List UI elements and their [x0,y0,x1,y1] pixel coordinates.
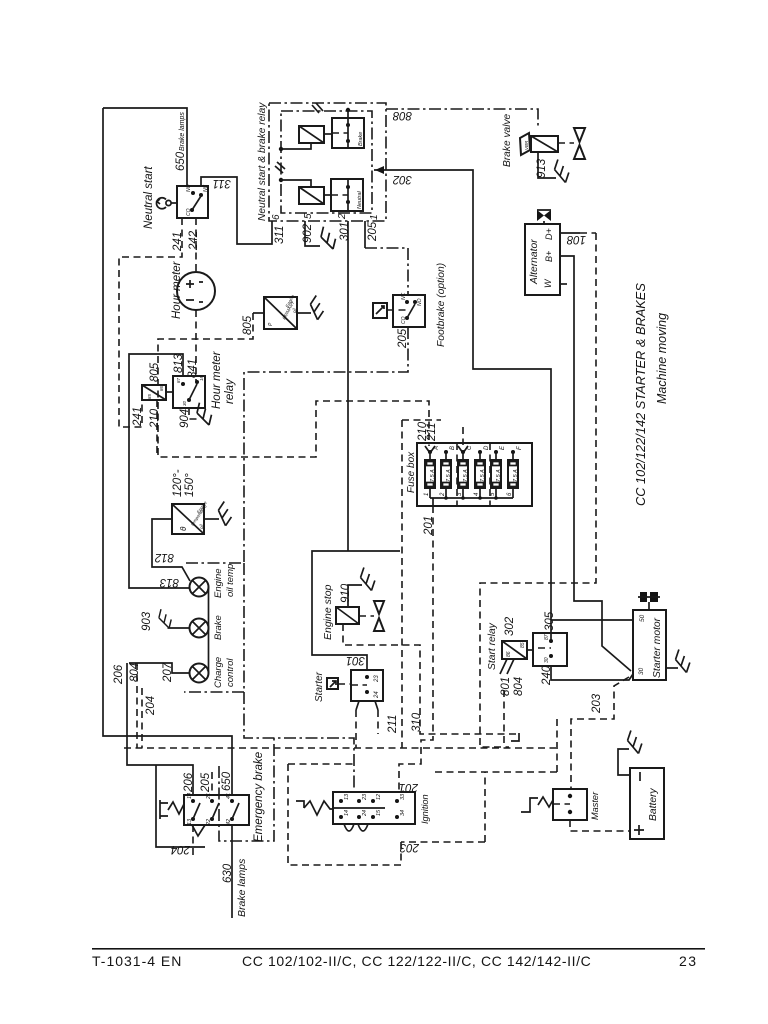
svg-text:7.5 A: 7.5 A [446,469,452,482]
svg-text:VBR: VBR [524,140,529,150]
alternator G1 [525,224,560,295]
neutral start switch S1 [177,186,208,218]
svg-text:18: 18 [199,375,204,381]
svg-text:2: 2 [440,492,446,497]
neutral relay coil [299,187,324,204]
fuse 1 [424,446,440,498]
svg-text:813: 813 [173,353,185,373]
valve actuator symbol [558,142,574,144]
svg-text:Engine: Engine [284,293,295,308]
svg-text:Footbrake (option): Footbrake (option) [436,263,447,347]
wire 804 dashed [136,663,138,748]
wire 205 from terminal 1 [364,221,366,248]
wire 311 switch to relay [201,177,272,244]
svg-text:oil temp: oil temp [225,564,236,597]
svg-text:650: 650 [221,771,233,791]
wire 305 relay to starter motor [551,619,633,621]
svg-text:808: 808 [392,109,412,121]
svg-text:205: 205 [367,221,379,242]
svg-text:NO: NO [417,298,423,306]
armature plate [520,133,530,155]
inner dash-dot box [281,111,372,213]
diode box 805 [264,297,297,329]
hour meter M1 [177,272,215,310]
svg-text:41: 41 [226,793,232,799]
svg-text:150°: 150° [184,473,196,497]
svg-text:C: C [467,445,473,450]
svg-text:P: P [268,322,274,326]
svg-text:204: 204 [171,843,191,855]
svg-text:310: 310 [411,712,423,732]
svg-text:Brake lamps: Brake lamps [179,112,186,151]
dash-dot trunk from footbrake [244,327,408,563]
svg-text:Neutral start & brake relay: Neutral start & brake relay [257,102,268,221]
svg-text:21: 21 [206,793,212,800]
brake relay coil [299,126,324,143]
key symbol starter [327,678,338,689]
svg-text:85: 85 [147,393,152,399]
wire 650 top rail [103,108,187,186]
svg-text:Brake: Brake [213,615,224,640]
svg-text:30: 30 [544,657,550,663]
svg-text:relay: relay [224,378,236,404]
wire 241 dashed [119,218,182,427]
svg-text:203: 203 [399,841,420,853]
svg-text:108: 108 [566,233,586,245]
svg-text:24: 24 [374,691,380,699]
wire 310 dashed [343,624,519,734]
dash-dot loop emergency brake [219,738,274,841]
svg-text:W: W [543,278,553,288]
lamps dash-dot box [184,563,244,692]
svg-text:Hour meter: Hour meter [171,260,183,319]
detent mark below [192,825,205,836]
svg-text:801: 801 [500,677,512,696]
svg-text:14: 14 [187,793,193,799]
fold marks [275,103,323,173]
svg-text:207: 207 [162,662,174,683]
svg-text:5: 5 [303,213,314,219]
ground 913 [551,159,572,182]
svg-text:D: D [484,445,490,450]
svg-text:Ignition: Ignition [420,794,430,824]
master switch [553,789,587,820]
svg-text:Fuse box: Fuse box [406,451,417,493]
wire 904 to ground [189,408,200,419]
svg-text:904: 904 [179,409,191,428]
svg-text:203: 203 [591,693,603,714]
svg-text:903: 903 [141,611,153,631]
svg-text:Emergency brake: Emergency brake [253,752,265,842]
battery [630,768,664,839]
svg-text:211: 211 [387,715,399,734]
svg-text:630: 630 [222,863,234,883]
svg-text:Engine stop: Engine stop [322,584,334,640]
svg-text:B: B [450,446,456,450]
svg-text:804: 804 [129,663,141,682]
svg-text:241: 241 [132,407,144,427]
svg-text:T-1031-4 EN: T-1031-4 EN [92,953,182,969]
wire 201 from fuse rail to ignition [432,498,434,506]
key symbol [171,202,177,204]
svg-text:NO: NO [186,184,192,192]
wire 206 [127,663,193,795]
wire 902 to ground [305,221,320,246]
svg-text:30: 30 [638,667,645,675]
outer dash-dot box [269,103,386,221]
svg-text:211: 211 [426,423,438,442]
footer rule [92,948,705,950]
svg-text:302: 302 [392,173,412,185]
wire 207 lamp3 [129,663,190,673]
wire 210 dashed from coil [156,400,158,457]
svg-text:85: 85 [520,642,526,648]
svg-text:120°-: 120°- [172,469,184,497]
svg-text:6: 6 [271,214,282,220]
svg-text:Battery: Battery [648,788,659,821]
emergency brake lever symbol [156,765,205,847]
svg-text:242: 242 [188,230,200,251]
svg-text:13: 13 [187,818,193,825]
ignition enclosure dashed [288,764,401,865]
fuse box enclosure dashed [402,420,441,748]
svg-text:86: 86 [159,385,164,391]
lamp brake [190,619,209,638]
svg-text:50: 50 [639,614,646,622]
start relay contact [533,633,567,666]
wire 650 left rail down to emergency brake [103,108,232,795]
fuse 2 [440,446,456,498]
ground thermal [216,502,234,526]
svg-text:Engine: Engine [213,568,224,598]
ignition switch [333,792,415,824]
svg-text:206: 206 [183,772,195,793]
battery minus wire to ground [618,749,630,775]
pedal symbol [373,303,387,318]
svg-text:34: 34 [400,810,406,816]
wires 801 804 from coil [500,659,514,674]
svg-text:5: 5 [490,492,496,496]
wire 203 dashed [401,677,629,842]
relay contact box [173,376,205,408]
svg-text:7.5 A: 7.5 A [430,469,436,482]
wire 812 [152,519,190,581]
fuse 6 [507,446,523,498]
ignition key lever [296,801,333,815]
dashed enclosure hour meter relay [158,313,429,457]
svg-text:Machine moving: Machine moving [655,313,669,404]
node top rail [347,109,349,118]
wire 204 below switch [192,825,194,856]
wire W stub [560,283,567,285]
wire 242/841 hour meter to relay [195,310,197,382]
svg-text:23: 23 [679,953,698,969]
svg-text:206: 206 [113,664,125,685]
svg-text:Brake lamps: Brake lamps [236,858,248,917]
svg-text:201: 201 [399,781,419,793]
thermal switch [172,504,204,534]
wire 211 arrow into fuse C [458,446,468,453]
svg-text:204: 204 [145,696,157,716]
wire to ground right [204,518,219,520]
svg-text:NC: NC [401,292,407,300]
start relay coil [502,641,527,659]
footbrake switch [393,295,425,327]
svg-text:Neutral start: Neutral start [143,166,155,229]
svg-text:Brake: Brake [358,132,364,146]
wire 913 to ground [538,152,556,178]
fuse 4 [474,445,490,498]
svg-text:D+: D+ [544,228,554,240]
wire 240 relay to starter motor [551,666,633,680]
svg-text:650: 650 [175,151,187,171]
svg-text:210: 210 [149,408,161,429]
svg-text:Master: Master [590,791,600,820]
svg-text:7.5 A: 7.5 A [496,469,502,482]
ground 902 [317,227,339,249]
wires below starter switch [356,701,378,710]
ground starter motor [666,667,678,669]
svg-text:CO: CO [186,208,192,216]
svg-text:7.5 A: 7.5 A [513,469,519,482]
valve symbol [359,615,374,617]
brake valve solenoid 913 [531,136,558,152]
svg-text:7.5 A: 7.5 A [463,469,469,482]
svg-text:301: 301 [346,654,365,666]
svg-text:23: 23 [362,793,368,801]
svg-text:311: 311 [213,177,231,189]
svg-text:813: 813 [159,576,179,588]
svg-text:812: 812 [154,551,174,563]
wire 302 from relay to start relay [374,170,551,641]
svg-text:θ: θ [179,526,188,531]
svg-text:E: E [500,445,506,450]
svg-text:24: 24 [362,810,368,817]
fuse bottom rail [430,497,513,499]
svg-text:3: 3 [457,492,463,496]
svg-text:910: 910 [340,583,352,603]
relay coil 805 [142,385,166,400]
ground for 805 box [308,296,326,320]
wire 242 dashed [195,218,197,272]
svg-text:15: 15 [376,809,382,816]
wire 808 dash-dot to brake valve [386,109,538,128]
wire 205 dashed into switch [211,772,213,795]
svg-text:201: 201 [423,516,435,536]
svg-text:Hour meter: Hour meter [211,350,223,409]
starter switch 301 [351,670,383,701]
master lever symbol [521,798,538,812]
svg-text:42: 42 [226,819,232,825]
svg-text:913: 913 [536,158,548,178]
svg-text:805: 805 [242,315,254,335]
svg-text:CC 102/122/142 STARTER & BRAKE: CC 102/122/142 STARTER & BRAKES [633,283,648,506]
svg-text:Brake valve: Brake valve [502,113,513,167]
neutral relay contact [331,179,363,211]
svg-text:305: 305 [544,611,556,631]
svg-text:23: 23 [374,675,380,683]
wire 301 long vertical [347,221,349,551]
wire master to battery plus [570,820,630,831]
ground 904 [193,403,215,425]
svg-text:NC: NC [203,184,209,192]
svg-text:6: 6 [507,492,513,496]
starter motor M2 [633,610,666,680]
svg-text:4: 4 [474,492,480,496]
svg-text:30: 30 [182,400,187,406]
svg-text:22: 22 [206,819,212,826]
svg-text:Start relay: Start relay [487,622,498,670]
engine stop enclosure [312,551,400,670]
svg-text:301: 301 [339,222,351,241]
wire 204 dashed [141,688,143,748]
svg-text:A: A [434,446,440,451]
svg-text:2: 2 [337,213,348,220]
svg-text:Starter: Starter [314,671,325,702]
brake relay contact [332,118,364,148]
long dashed wire y748 [124,747,556,749]
svg-text:CO: CO [401,316,407,324]
wire 903 brake lamp to ground [168,627,190,629]
svg-text:13: 13 [344,793,350,800]
dash-dot trunk lower [244,692,354,792]
fuse 5 [490,445,506,498]
wire to ground above [348,585,362,607]
coil loops below [344,824,368,831]
wire 813 enclosure [129,354,190,588]
svg-text:Alternator: Alternator [529,239,540,285]
svg-text:14: 14 [344,810,350,816]
svg-text:1: 1 [424,493,430,496]
fuse box F1-F6 [417,443,532,506]
svg-text:805: 805 [149,362,161,382]
svg-text:Neutral: Neutral [357,190,363,209]
svg-text:902: 902 [302,223,314,243]
svg-text:302: 302 [504,616,516,636]
svg-text:12: 12 [376,794,382,800]
emergency brake switch [184,795,249,825]
svg-text:87: 87 [176,377,181,383]
svg-text:control: control [225,658,236,687]
svg-text:86: 86 [506,651,512,657]
svg-text:1: 1 [369,214,380,220]
fuse 3 [457,445,473,498]
wire D+ dashed to start relay [560,232,580,234]
dash-dot wire 205 to footbrake [365,248,408,295]
svg-text:CC 102/102-II/C, CC 122/122-II: CC 102/102-II/C, CC 122/122-II/C, CC 142… [242,953,591,969]
pulley symbol [537,210,551,221]
lamp charge control [190,664,209,683]
svg-text:F: F [517,446,523,450]
svg-text:311: 311 [274,226,286,244]
svg-text:Starter motor: Starter motor [652,617,663,678]
svg-text:33: 33 [400,793,406,800]
svg-text:804: 804 [513,677,525,696]
svg-text:Charge: Charge [213,657,224,688]
wire B+ to starter motor [560,256,631,671]
lamp right bus [208,587,210,673]
svg-text:B+: B+ [544,251,554,262]
svg-text:241: 241 [172,232,184,252]
lamp engine oil temp [190,578,209,597]
wire 210 arrow into fuse A [425,446,435,453]
svg-text:87: 87 [544,634,550,640]
battery post icon [648,602,650,610]
svg-text:7.5 A: 7.5 A [480,469,486,482]
svg-text:205: 205 [200,772,212,793]
engine stop solenoid 910 [336,607,359,624]
wire 630 brake lamps output [231,825,233,918]
